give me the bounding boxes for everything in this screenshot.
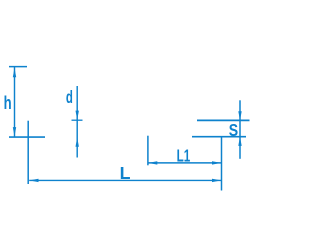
dimension L line <box>29 179 221 181</box>
svg-text:h: h <box>4 92 12 113</box>
dimension S line <box>239 100 241 159</box>
product edge line right <box>192 136 246 138</box>
dimension d line <box>76 86 78 158</box>
extension line L1 left <box>147 136 149 166</box>
dimension L arrow left <box>29 179 38 182</box>
dimension d tick <box>72 119 83 121</box>
dimension S arrow up <box>238 137 241 146</box>
dimension L1 line <box>148 162 221 164</box>
dimension L1 arrow left <box>148 161 157 164</box>
svg-text:S: S <box>229 120 238 140</box>
dimension L1 arrow right <box>212 161 221 164</box>
svg-text:L1: L1 <box>177 146 191 166</box>
dimension d arrow up <box>76 137 79 146</box>
svg-text:d: d <box>66 87 73 107</box>
dimension h arrow down <box>13 127 16 136</box>
dimension h top tick <box>9 66 27 68</box>
dimension h line <box>14 67 16 137</box>
dimension d arrow down <box>76 111 79 120</box>
extension line right (L/L1 end) <box>221 137 223 191</box>
dimension S arrow down <box>238 111 241 120</box>
svg-text:L: L <box>120 163 131 183</box>
extension line left (L start) <box>27 121 29 184</box>
dimension h arrow up <box>13 68 16 77</box>
baseline bottom-left <box>9 136 45 138</box>
product edge line top-right <box>197 119 250 121</box>
dimension L arrow right <box>212 179 221 182</box>
